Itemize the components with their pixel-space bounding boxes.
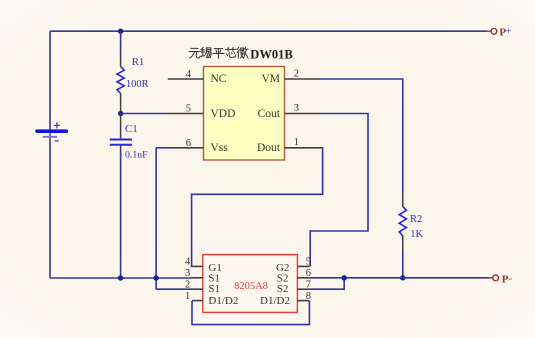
svg-text:C1: C1	[125, 123, 138, 135]
svg-text:2: 2	[185, 279, 190, 290]
svg-text:VDD: VDD	[211, 108, 236, 120]
pin 8 (D1/D2) stub	[297, 291, 311, 302]
label 1K	[410, 229, 423, 240]
pin name S1 (pin 3)	[208, 273, 220, 285]
svg-text:3: 3	[294, 103, 299, 114]
svg-text:DW01B: DW01B	[250, 47, 292, 61]
svg-text:0.1uF: 0.1uF	[125, 150, 148, 161]
junction VDD node (R1 / C1 / pin5)	[118, 111, 123, 116]
svg-text:R1: R1	[132, 56, 145, 68]
svg-text:D1/D2: D1/D2	[260, 295, 290, 307]
wire R2 bottom to P- bus	[402, 251, 404, 278]
pin 1 (Dout) stub	[285, 137, 321, 148]
svg-text:VM: VM	[261, 73, 280, 85]
svg-text:8205A8: 8205A8	[234, 281, 268, 292]
terminal P+	[487, 28, 497, 34]
label title 无锡平芯微DW01B	[189, 47, 248, 58]
svg-text:100R: 100R	[126, 79, 149, 90]
junction pin7 / P- bus	[342, 275, 347, 280]
svg-text:R2: R2	[410, 214, 422, 225]
wire top rail B+ to P+	[50, 30, 487, 32]
label R1	[132, 56, 145, 68]
terminal P-	[489, 275, 499, 281]
pin name Cout	[258, 108, 281, 120]
wire D1/D2 bottom loop pin1 to pin8	[192, 301, 309, 325]
pin name NC	[211, 73, 227, 85]
pin name VDD	[211, 108, 236, 120]
label P+	[499, 26, 511, 39]
pin 4 (G1) stub	[185, 257, 203, 268]
resistor R1	[117, 53, 124, 114]
svg-text:S2: S2	[277, 283, 289, 295]
pin 5 (VDD) stub	[168, 104, 204, 115]
svg-text:1: 1	[185, 291, 190, 302]
svg-text:8: 8	[306, 291, 311, 302]
svg-text:S1: S1	[208, 283, 220, 295]
label 100R	[126, 79, 149, 90]
svg-text:5: 5	[186, 104, 191, 115]
junction C1 / B- bus	[118, 275, 123, 280]
pin 5 (G2) stub	[297, 257, 311, 268]
pin 1 (D1/D2) stub	[185, 291, 203, 302]
transistor U2 8205A8 body	[203, 255, 298, 313]
wire to 8205 pin 2 (S1)	[156, 288, 191, 290]
IC U1 DW01B body	[204, 67, 285, 161]
svg-text:3: 3	[185, 268, 190, 279]
pin name S2 (pin 6)	[277, 273, 289, 285]
pin name S1 (pin 2)	[208, 283, 220, 295]
svg-text:D1/D2: D1/D2	[208, 295, 238, 307]
pin 6 (Vss) stub	[168, 138, 204, 149]
svg-text:Vss: Vss	[211, 142, 229, 154]
pin 2 (S1) stub	[185, 279, 203, 290]
wire battery negative lead down to B- bus	[49, 141, 51, 279]
label 0.1uF	[125, 150, 148, 161]
wire Vss horizontal to pin 6	[156, 147, 168, 149]
label 8205A8	[234, 281, 268, 292]
pin name Vss	[211, 142, 229, 154]
wire VM net to R2	[321, 79, 403, 192]
svg-text:4: 4	[185, 257, 191, 268]
junction Vss / B- bus	[153, 275, 158, 280]
label C1	[125, 123, 138, 135]
wire VDD node to pin 5	[121, 113, 168, 115]
pin 4 (NC) stub	[168, 69, 204, 80]
junction top rail / R1	[118, 29, 123, 34]
wire Cout net to 8205 pin 5	[310, 114, 368, 267]
wire Dout net to 8205 pin 4	[192, 148, 323, 267]
pin name Dout	[257, 142, 281, 154]
pin 3 (S1) stub	[185, 268, 203, 279]
svg-text:1: 1	[294, 137, 299, 148]
svg-text:6: 6	[186, 138, 191, 149]
wire B- bus to 8205 pin 3	[50, 277, 191, 279]
wire R1 top	[120, 31, 122, 54]
svg-text:NC: NC	[211, 73, 227, 85]
label R2	[410, 214, 422, 225]
svg-text:5: 5	[306, 257, 311, 268]
pin 3 (Cout) stub	[285, 103, 321, 114]
resistor R2	[399, 191, 406, 252]
wire battery positive lead up to rail	[49, 31, 51, 129]
junction R2 / P- bus	[400, 275, 405, 280]
pin 6 (S2) stub	[297, 268, 311, 279]
battery BT1	[37, 122, 66, 141]
pin name G2	[276, 262, 289, 274]
label P-	[502, 273, 513, 286]
svg-text:-: -	[508, 273, 512, 285]
pin 7 (S2) stub	[297, 279, 311, 290]
svg-text:4: 4	[186, 69, 192, 80]
wire pin 7 up to P- bus	[309, 278, 344, 289]
wire Vss net vertical (pin 6 down through bus to pin 2 of 8205)	[155, 148, 157, 289]
svg-text:2: 2	[294, 68, 299, 79]
svg-text:1K: 1K	[410, 229, 423, 240]
svg-text:+: +	[505, 26, 511, 38]
capacitor C1	[110, 114, 132, 153]
pin 2 (VM) stub	[285, 68, 321, 79]
pin name D1/D2 (right)	[260, 295, 290, 307]
svg-text:Dout: Dout	[257, 142, 281, 154]
pin name S2 (pin 7)	[277, 283, 289, 295]
pin name VM	[261, 73, 280, 85]
svg-text:Cout: Cout	[258, 108, 281, 120]
wire S2 pins to P- bus and terminal	[309, 277, 488, 279]
pin name D1/D2 (left)	[208, 295, 238, 307]
wire C1 bottom to B- bus	[120, 152, 122, 279]
pin name G1	[208, 262, 221, 274]
